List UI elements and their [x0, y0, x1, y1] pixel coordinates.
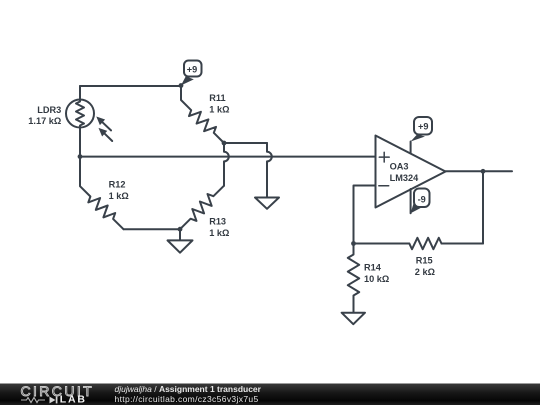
wire R13 riser with hop over bridge — [224, 143, 229, 186]
node C junction (R12/R13/ground) — [178, 227, 183, 232]
power flag +9 (left) — [181, 61, 202, 86]
wire feedback drop — [482, 171, 484, 243]
power flag -9 (op-amp V-) — [411, 189, 430, 214]
svg-text:R13: R13 — [209, 216, 226, 226]
svg-text:1.17 kΩ: 1.17 kΩ — [28, 116, 61, 126]
wire ground drop with hop over bridge — [267, 143, 272, 198]
resistor R13 1 kOhm — [180, 186, 229, 238]
wire top rail horizontal — [80, 85, 181, 87]
wire LDR bottom lead — [79, 127, 81, 157]
wire op-amp output — [446, 170, 513, 172]
node F junction (output/feedback) — [481, 169, 486, 174]
svg-text:OA3: OA3 — [390, 162, 409, 172]
svg-text:1 kΩ: 1 kΩ — [109, 191, 129, 201]
svg-text:2 kΩ: 2 kΩ — [415, 267, 435, 277]
svg-text:http://circuitlab.com/cz3c56v3: http://circuitlab.com/cz3c56v3jx7u5 — [115, 394, 259, 404]
footer attribution text — [115, 384, 262, 404]
node B junction (top rail / R11) — [179, 83, 184, 88]
svg-text:1 kΩ: 1 kΩ — [209, 228, 229, 238]
svg-text:10 kΩ: 10 kΩ — [364, 274, 389, 284]
wire op-amp inverting input — [354, 186, 376, 244]
node A junction — [78, 154, 83, 159]
wire bridge node A to op-amp + input — [80, 156, 376, 158]
svg-text:LDR3: LDR3 — [37, 105, 61, 115]
svg-text:djujwaljha / Assignment 1 tran: djujwaljha / Assignment 1 transducer — [115, 384, 262, 394]
svg-text:R11: R11 — [209, 93, 225, 103]
CircuitLab logo — [21, 383, 95, 405]
resistor R12 1 kOhm — [80, 157, 129, 230]
wire feedback left segment — [354, 243, 410, 245]
wire R12 bottom to node C — [124, 228, 181, 230]
ground (right of R13) — [255, 198, 279, 209]
svg-text:R15: R15 — [416, 256, 433, 266]
node D junction (R11/R13) — [222, 141, 227, 146]
svg-text:R12: R12 — [109, 180, 126, 190]
ground (below R14) — [342, 313, 365, 325]
resistor R11 1 kOhm — [181, 86, 229, 143]
svg-text:+9: +9 — [418, 122, 428, 132]
svg-text:LM324: LM324 — [390, 173, 419, 183]
node E junction (feedback/R14) — [351, 241, 356, 246]
wire LDR top lead — [79, 86, 81, 100]
svg-text:+9: +9 — [187, 65, 197, 75]
resistor R15 2 kOhm — [409, 238, 441, 277]
ground (below node C) — [168, 229, 193, 253]
power flag +9 (op-amp V+) — [411, 117, 432, 153]
wire node D to ground drop — [224, 142, 267, 144]
wire feedback right segment — [442, 243, 484, 245]
photoresistor LDR3 1.17 kOhm — [28, 100, 112, 142]
svg-text:R14: R14 — [364, 263, 382, 273]
svg-text:1 kΩ: 1 kΩ — [209, 104, 229, 114]
svg-text:LAB: LAB — [60, 394, 87, 405]
svg-text:-9: -9 — [418, 194, 426, 204]
op-amp OA3 LM324 — [376, 136, 446, 208]
resistor R14 10 kOhm — [348, 244, 389, 313]
